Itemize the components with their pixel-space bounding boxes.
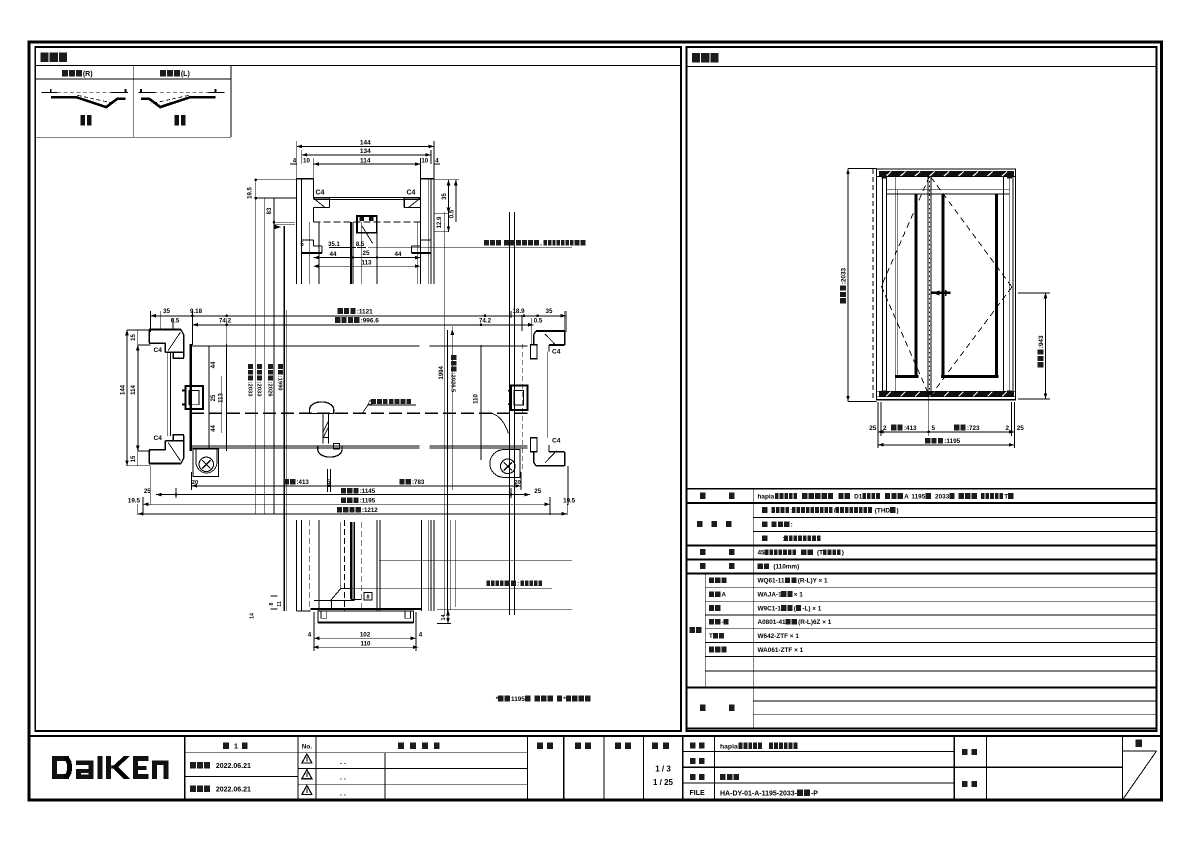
plan bottom chain leaf widths bbox=[192, 469, 521, 492]
svg-text::: : bbox=[517, 581, 519, 588]
content file name bbox=[720, 790, 798, 797]
note text hardware positions bbox=[367, 399, 411, 406]
plan right latch loop with X bbox=[490, 450, 520, 478]
svg-text:C4: C4 bbox=[154, 435, 163, 442]
content name hapia livingdoor bbox=[720, 743, 797, 751]
front view frame sill bar bbox=[877, 391, 1016, 397]
plan center rotated dim texts bbox=[246, 364, 283, 397]
front view dim height 2033 bbox=[846, 169, 876, 402]
projection lines vertical set bbox=[256, 178, 515, 615]
svg-text:44: 44 bbox=[395, 251, 402, 258]
svg-text:74.2: 74.2 bbox=[219, 317, 232, 324]
head jamb left profile bbox=[297, 179, 330, 253]
svg-text:144: 144 bbox=[121, 384, 127, 395]
svg-text:15: 15 bbox=[131, 334, 137, 341]
spec row content part numbers bbox=[758, 577, 829, 584]
svg-text:4: 4 bbox=[293, 157, 297, 164]
floor pivot bottom cup bbox=[318, 444, 342, 457]
svg-text:110: 110 bbox=[474, 394, 480, 404]
plan right rotated dim texts 1994 2026.5 bbox=[439, 365, 445, 379]
svg-text::943: :943 bbox=[1038, 335, 1045, 348]
label staff bbox=[962, 781, 977, 787]
sill top thick line bbox=[311, 608, 421, 610]
svg-text:19.5: 19.5 bbox=[128, 498, 141, 505]
svg-text:2: 2 bbox=[1006, 425, 1010, 432]
svg-text:19.5: 19.5 bbox=[248, 187, 254, 199]
svg-text:FILE: FILE bbox=[690, 790, 705, 797]
front view pivot corner marks bbox=[881, 174, 1012, 395]
svg-text::: : bbox=[791, 522, 793, 529]
svg-text:8: 8 bbox=[269, 602, 275, 605]
svg-text:W642-ZTF × 1: W642-ZTF × 1 bbox=[758, 633, 800, 640]
plan right inner dim 110 bbox=[474, 345, 482, 460]
spec row content model designation bbox=[758, 493, 1014, 500]
svg-text::1212: :1212 bbox=[362, 507, 378, 514]
svg-text:C4: C4 bbox=[552, 349, 561, 356]
plan left latch loop with X bbox=[193, 449, 218, 477]
svg-text:. .: . . bbox=[340, 759, 346, 766]
plan left jamb board verticals bbox=[168, 352, 171, 436]
svg-text:25: 25 bbox=[1017, 425, 1025, 432]
label 左吊元(L) bbox=[160, 70, 190, 78]
svg-text:2022.06.21: 2022.06.21 bbox=[216, 763, 251, 770]
svg-text:45: 45 bbox=[758, 550, 766, 557]
svg-text:× 1: × 1 bbox=[794, 592, 804, 599]
svg-text::1121: :1121 bbox=[357, 308, 373, 315]
svg-text:WQ61-11: WQ61-11 bbox=[758, 578, 785, 585]
spec row content door special finish bbox=[762, 521, 793, 528]
section-view panel title 断面図 bbox=[41, 53, 68, 63]
note text head packing bbox=[484, 240, 585, 247]
svg-text:113: 113 bbox=[219, 393, 225, 403]
svg-text::996.6: :996.6 bbox=[361, 318, 380, 325]
label 右吊元(R) bbox=[62, 70, 93, 78]
sill bottom dim 110 bbox=[313, 641, 418, 650]
svg-text::413: :413 bbox=[904, 425, 917, 432]
floor pivot top cup bbox=[310, 402, 334, 414]
svg-text:(THD: (THD bbox=[875, 508, 891, 515]
svg-text:12.9: 12.9 bbox=[437, 216, 443, 228]
plan door face dashed line bbox=[191, 412, 528, 414]
svg-text::1145: :1145 bbox=[360, 488, 376, 495]
svg-text:0.5: 0.5 bbox=[534, 317, 543, 324]
svg-text::2026.5: :2026.5 bbox=[450, 373, 456, 393]
title cell first edition bbox=[185, 753, 298, 777]
label product number bbox=[690, 758, 705, 764]
title cell established date bbox=[190, 762, 251, 770]
title cell No column bbox=[302, 744, 313, 751]
svg-text:C4: C4 bbox=[316, 190, 325, 197]
spec table horizontal rules bbox=[687, 489, 1157, 729]
svg-text::2033: :2033 bbox=[246, 382, 252, 398]
dim 134 head section bbox=[302, 148, 431, 164]
plan dim line upper chain bbox=[150, 308, 566, 317]
svg-text:5: 5 bbox=[932, 425, 936, 432]
svg-text:0.5: 0.5 bbox=[171, 317, 180, 324]
svg-text:(R-L)Y × 1: (R-L)Y × 1 bbox=[798, 578, 828, 585]
svg-text:C4: C4 bbox=[407, 190, 416, 197]
svg-text:A0801-41: A0801-41 bbox=[758, 619, 787, 626]
dim row 44 25 44 head bbox=[313, 250, 420, 259]
svg-text:4: 4 bbox=[435, 157, 439, 164]
spec table row labels bbox=[700, 493, 735, 499]
svg-text:113: 113 bbox=[362, 259, 373, 266]
svg-text:1: 1 bbox=[234, 744, 238, 751]
svg-text:83: 83 bbox=[267, 207, 273, 214]
svg-text:): ) bbox=[896, 508, 898, 515]
note leader head packing bbox=[368, 246, 572, 248]
svg-text:5: 5 bbox=[327, 479, 331, 486]
svg-text:hapia: hapia bbox=[720, 743, 738, 750]
svg-text:8: 8 bbox=[367, 595, 370, 601]
plan extension verticals top bbox=[150, 311, 566, 346]
svg-text::2033: :2033 bbox=[841, 267, 848, 284]
svg-text:35: 35 bbox=[163, 308, 170, 315]
svg-text:1 / 3: 1 / 3 bbox=[655, 765, 671, 774]
front view door top rails full width bbox=[886, 190, 1009, 194]
svg-text:C4: C4 bbox=[552, 438, 561, 445]
mini section sketch right-hinged bbox=[42, 89, 128, 126]
svg-text::1990: :1990 bbox=[276, 376, 282, 391]
plan right jamb top hook bbox=[531, 331, 565, 359]
svg-text:4: 4 bbox=[419, 632, 423, 639]
svg-text:25: 25 bbox=[534, 488, 541, 495]
svg-text:144: 144 bbox=[360, 140, 371, 147]
svg-text::2033: :2033 bbox=[255, 382, 261, 398]
svg-text:20: 20 bbox=[514, 480, 520, 486]
plan right pivot hinge block bbox=[508, 386, 527, 411]
svg-text:14: 14 bbox=[250, 613, 256, 619]
svg-text:1994: 1994 bbox=[439, 365, 445, 379]
svg-text:0.5: 0.5 bbox=[450, 209, 456, 218]
sill floor plate bbox=[318, 611, 414, 622]
svg-text:11: 11 bbox=[277, 601, 283, 607]
svg-text:102: 102 bbox=[360, 632, 371, 639]
svg-text:D1: D1 bbox=[854, 493, 863, 500]
svg-text:25: 25 bbox=[869, 425, 877, 432]
svg-text:WA061-ZTF × 1: WA061-ZTF × 1 bbox=[758, 647, 804, 654]
spec row content handle bbox=[758, 549, 844, 556]
svg-text:25: 25 bbox=[211, 394, 217, 401]
plan left jamb chamfer labels C4 bbox=[154, 347, 163, 442]
plan dim line lower chain bbox=[171, 317, 543, 326]
svg-text:114: 114 bbox=[360, 157, 371, 164]
spec row content kutsuzuri bbox=[758, 563, 800, 570]
svg-text:25: 25 bbox=[363, 250, 370, 257]
svg-text:-: - bbox=[721, 619, 723, 626]
label name bbox=[690, 742, 705, 748]
revision warning triangles bbox=[302, 754, 312, 795]
svg-text:. .: . . bbox=[340, 791, 346, 798]
svg-text:1 / 25: 1 / 25 bbox=[653, 778, 674, 787]
svg-text:1195: 1195 bbox=[911, 493, 925, 500]
svg-text:44: 44 bbox=[330, 251, 337, 258]
front view parent door leaf bbox=[941, 176, 1003, 391]
sill dim 8 box bbox=[364, 593, 372, 601]
plan left open leaf line bbox=[225, 344, 227, 451]
svg-text::783: :783 bbox=[412, 479, 425, 486]
svg-text:2: 2 bbox=[883, 425, 887, 432]
svg-text:8.5: 8.5 bbox=[356, 242, 365, 248]
svg-text:(T: (T bbox=[817, 550, 823, 557]
svg-text:134: 134 bbox=[360, 148, 371, 155]
svg-text:hapia: hapia bbox=[758, 493, 775, 500]
plan left pivot hinge block bbox=[182, 386, 203, 409]
svg-text:110: 110 bbox=[361, 641, 372, 648]
plan right jamb chamfer labels C4 bbox=[552, 349, 561, 445]
svg-text:35: 35 bbox=[546, 308, 553, 315]
title cell revised date bbox=[190, 786, 251, 794]
approval check create headers bbox=[537, 743, 553, 750]
plan door body lines bbox=[191, 446, 528, 448]
svg-text:35: 35 bbox=[442, 193, 448, 200]
page cell bbox=[1122, 750, 1156, 752]
note text french bolt bbox=[487, 580, 543, 587]
svg-text:T: T bbox=[709, 633, 713, 640]
svg-text:44: 44 bbox=[211, 425, 217, 432]
left small dims head 19.5 83 bbox=[248, 179, 297, 230]
svg-text:4: 4 bbox=[308, 632, 312, 639]
front view frame head bar bbox=[877, 171, 1016, 176]
svg-text::1195: :1195 bbox=[944, 438, 960, 445]
front view handle bbox=[932, 290, 951, 296]
front-view panel title 正面図 bbox=[692, 53, 719, 63]
top pivot housing bbox=[357, 216, 377, 243]
svg-text:10: 10 bbox=[421, 157, 428, 164]
svg-text:(L): (L) bbox=[181, 71, 190, 78]
front view child door leaf bbox=[895, 176, 918, 391]
plan bottom chain 1145 bbox=[144, 488, 542, 498]
plan right hinge axis dashed bbox=[522, 344, 524, 470]
DAIKEN logo bbox=[52, 756, 169, 779]
sill left small ticks bbox=[250, 596, 311, 619]
head jamb right profile bbox=[404, 179, 434, 253]
front view frame jamb lines bbox=[873, 169, 1013, 400]
plan 1994 dim line top arrow bbox=[450, 327, 454, 491]
svg-text:. .: . . bbox=[340, 775, 346, 782]
svg-text:15: 15 bbox=[131, 455, 137, 462]
front view frame outer bbox=[877, 169, 1016, 400]
sill step profile bbox=[314, 588, 361, 609]
plan outside-left dims 15 144 114 15 bbox=[121, 330, 151, 466]
label drawing name bbox=[690, 774, 705, 780]
mini table grid bbox=[35, 66, 231, 138]
svg-text:14: 14 bbox=[441, 615, 447, 621]
svg-text:C4: C4 bbox=[154, 347, 163, 354]
svg-text::723: :723 bbox=[967, 425, 980, 432]
scale header and values bbox=[652, 743, 669, 750]
svg-text:2022.06.21: 2022.06.21 bbox=[216, 787, 251, 794]
svg-text:(110mm): (110mm) bbox=[773, 564, 799, 571]
content drawing name sanmenzu bbox=[720, 774, 739, 780]
label subject name bbox=[962, 749, 977, 755]
plan bottom chain 1195 bbox=[128, 497, 576, 506]
note leader hardware positions bbox=[362, 405, 416, 413]
front view bottom chain 1195 bbox=[878, 443, 1015, 447]
svg-text:W9C1-1: W9C1-1 bbox=[758, 605, 782, 612]
dim row 113 head bbox=[313, 259, 420, 268]
svg-text:114: 114 bbox=[131, 385, 137, 395]
plan left jamb bottom hook bbox=[149, 435, 184, 464]
svg-text:/: / bbox=[834, 508, 836, 515]
left panel border (section views) bbox=[35, 47, 681, 731]
svg-text:HA-DY-01-A-1195-2033-: HA-DY-01-A-1195-2033- bbox=[720, 790, 798, 797]
revision history header bbox=[398, 743, 440, 750]
svg-text:2033: 2033 bbox=[935, 493, 950, 500]
front view meeting stile bbox=[928, 176, 931, 396]
right vertical dims head 35 12.9 0.5 bbox=[434, 180, 459, 232]
front view swing dashed left V bbox=[881, 176, 929, 396]
dim row 35.1 8.5 head bbox=[300, 242, 366, 248]
svg-text:A: A bbox=[904, 493, 909, 500]
svg-text:-L) × 1: -L) × 1 bbox=[802, 605, 821, 612]
svg-text:35.1: 35.1 bbox=[328, 242, 340, 248]
svg-text:9.18: 9.18 bbox=[190, 308, 203, 315]
plan right jamb inner line bbox=[546, 352, 548, 438]
svg-text:18.9: 18.9 bbox=[512, 308, 525, 315]
svg-text:T: T bbox=[1004, 493, 1008, 500]
page cell diagonal bbox=[1122, 751, 1156, 800]
dim 114 with 4 10 / 10 4 head section bbox=[290, 157, 440, 180]
front view bottom extension verticals bbox=[878, 397, 1015, 448]
front view dim latch height 943 bbox=[1018, 293, 1050, 399]
sill bottom dim 102 bbox=[308, 612, 423, 651]
label FILE bbox=[690, 790, 705, 797]
plan left door stop thick line bbox=[190, 344, 192, 451]
svg-text:10: 10 bbox=[303, 157, 310, 164]
svg-text:1195: 1195 bbox=[511, 696, 525, 703]
mini section sketch left-hinged bbox=[139, 89, 225, 126]
spec table vertical rules bbox=[705, 489, 753, 729]
svg-text:20: 20 bbox=[192, 480, 198, 486]
spec table sub labels hinban bbox=[709, 577, 727, 583]
plan left inner dims 44 25 113 44 bbox=[209, 346, 225, 449]
title underline right panel bbox=[687, 65, 1157, 67]
svg-text::413: :413 bbox=[296, 479, 309, 486]
svg-text:-P: -P bbox=[811, 790, 818, 797]
sill right dim 14 bbox=[379, 561, 572, 624]
name rows grid bbox=[683, 752, 1123, 784]
plan right door swing arc bbox=[492, 413, 509, 433]
front view swing dashed right diamond bbox=[931, 177, 1012, 395]
svg-text:WAJA-1: WAJA-1 bbox=[758, 592, 783, 599]
chamfer label C4 right head bbox=[407, 190, 416, 197]
svg-text:): ) bbox=[842, 550, 844, 557]
note french bolt leader bbox=[330, 588, 341, 601]
head board lines bbox=[313, 197, 420, 221]
svg-text:A: A bbox=[721, 592, 726, 599]
plan bottom extension verticals bbox=[138, 466, 568, 515]
note text right-hinge case bbox=[496, 696, 591, 703]
svg-text:(R): (R) bbox=[83, 71, 93, 78]
plan door head line bbox=[191, 345, 528, 347]
title underline left panel bbox=[35, 65, 681, 67]
plan right jamb bottom hook bbox=[531, 438, 565, 466]
spec row content door panel finish bbox=[762, 507, 899, 514]
svg-text:44: 44 bbox=[211, 361, 217, 368]
floor pivot stem bbox=[323, 414, 328, 444]
svg-text:74.2: 74.2 bbox=[479, 317, 492, 324]
title block frame bbox=[29, 735, 1162, 737]
dim 144 head section bbox=[297, 140, 434, 180]
svg-text:No.: No. bbox=[302, 744, 313, 751]
svg-text:19.5: 19.5 bbox=[563, 498, 576, 505]
plan bottom chain 1212 bbox=[138, 512, 567, 516]
plan left jamb profile top hook bbox=[149, 330, 184, 359]
front view bottom chain leaf widths bbox=[869, 425, 1024, 434]
chamfer label C4 left head bbox=[316, 190, 325, 197]
right panel border (front view) bbox=[687, 47, 1157, 731]
svg-text::1195: :1195 bbox=[360, 498, 376, 505]
revision history date dots bbox=[340, 759, 346, 798]
svg-text::2026: :2026 bbox=[266, 382, 272, 398]
svg-text:(R-L)6Z × 1: (R-L)6Z × 1 bbox=[798, 619, 832, 626]
spec row content frame finish bbox=[762, 535, 820, 542]
